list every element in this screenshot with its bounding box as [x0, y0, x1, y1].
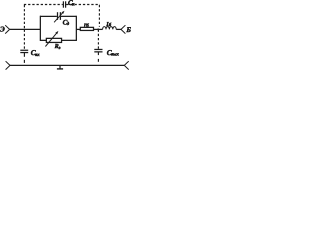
svg-text:Б: Б	[125, 25, 131, 34]
svg-text:вых: вых	[111, 53, 119, 58]
svg-text:э: э	[58, 45, 61, 50]
svg-text:к: к	[72, 3, 75, 8]
svg-text:вх: вх	[35, 53, 40, 58]
svg-text:Э: Э	[0, 24, 5, 33]
svg-text:б: б	[86, 23, 89, 29]
svg-text:д: д	[67, 21, 70, 27]
